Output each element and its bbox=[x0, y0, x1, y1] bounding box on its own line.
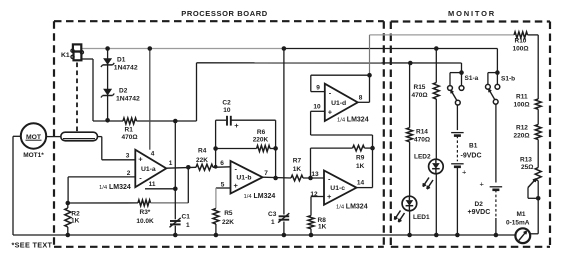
svg-text:10: 10 bbox=[223, 107, 231, 114]
svg-text:R2: R2 bbox=[71, 210, 80, 217]
svg-text:7: 7 bbox=[264, 170, 268, 177]
svg-text:U1-d: U1-d bbox=[331, 100, 346, 107]
svg-text:22K: 22K bbox=[222, 219, 234, 226]
svg-text:+: + bbox=[234, 121, 239, 130]
svg-text:10: 10 bbox=[313, 104, 321, 111]
svg-text:+: + bbox=[462, 168, 467, 177]
svg-text:1: 1 bbox=[169, 160, 173, 167]
svg-text:U1-c: U1-c bbox=[330, 185, 345, 192]
svg-text:2: 2 bbox=[127, 170, 131, 177]
svg-text:-9VDC: -9VDC bbox=[461, 153, 482, 160]
svg-text:1K: 1K bbox=[356, 163, 365, 170]
svg-text:470Ω: 470Ω bbox=[412, 92, 428, 99]
svg-text:R9: R9 bbox=[356, 155, 365, 162]
svg-text:R1: R1 bbox=[125, 127, 134, 134]
svg-text:1K: 1K bbox=[293, 166, 302, 173]
svg-text:220Ω: 220Ω bbox=[514, 133, 530, 140]
svg-text:LM324: LM324 bbox=[109, 184, 131, 191]
svg-text:0-15mA: 0-15mA bbox=[506, 220, 530, 227]
svg-text:MONITOR: MONITOR bbox=[448, 9, 496, 18]
svg-text:1N4742: 1N4742 bbox=[116, 96, 140, 103]
svg-text:LED2: LED2 bbox=[414, 154, 431, 161]
svg-text:+: + bbox=[328, 107, 333, 116]
svg-text:S1-b: S1-b bbox=[501, 76, 515, 83]
svg-text:+: + bbox=[327, 192, 332, 201]
svg-text:*SEE TEXT: *SEE TEXT bbox=[12, 241, 53, 250]
svg-text:PROCESSOR BOARD: PROCESSOR BOARD bbox=[181, 9, 268, 18]
svg-text:LM324: LM324 bbox=[346, 204, 368, 211]
svg-text:1N4742: 1N4742 bbox=[114, 64, 138, 71]
svg-text:R6: R6 bbox=[257, 129, 266, 136]
svg-text:1/4: 1/4 bbox=[99, 185, 108, 191]
svg-text:13: 13 bbox=[311, 171, 319, 178]
svg-text:+: + bbox=[480, 180, 485, 189]
svg-text:C3: C3 bbox=[268, 211, 277, 218]
svg-text:D1: D1 bbox=[117, 57, 126, 64]
svg-text:LED1: LED1 bbox=[413, 214, 430, 221]
svg-text:11: 11 bbox=[149, 181, 156, 188]
svg-text:1: 1 bbox=[271, 219, 275, 226]
svg-text:LM324: LM324 bbox=[347, 117, 369, 124]
svg-text:R4: R4 bbox=[198, 147, 207, 154]
svg-text:1/4: 1/4 bbox=[244, 194, 253, 200]
svg-text:4: 4 bbox=[151, 151, 155, 158]
svg-text:22K: 22K bbox=[196, 157, 208, 164]
svg-text:D2: D2 bbox=[119, 88, 128, 95]
svg-text:B1: B1 bbox=[469, 143, 478, 150]
svg-text:R14: R14 bbox=[416, 129, 428, 136]
svg-text:R11: R11 bbox=[516, 94, 528, 101]
svg-text:R7: R7 bbox=[293, 157, 302, 164]
svg-text:R5: R5 bbox=[224, 210, 233, 217]
svg-text:3: 3 bbox=[126, 153, 130, 160]
svg-text:U1-b: U1-b bbox=[236, 175, 251, 182]
svg-text:C2: C2 bbox=[222, 99, 231, 106]
svg-text:M1: M1 bbox=[517, 211, 526, 218]
svg-text:1/4: 1/4 bbox=[336, 205, 345, 211]
svg-text:1K: 1K bbox=[318, 224, 327, 231]
svg-text:R3*: R3* bbox=[140, 209, 151, 216]
svg-text:+: + bbox=[234, 181, 239, 190]
svg-text:S1-a: S1-a bbox=[465, 75, 479, 82]
svg-text:R10: R10 bbox=[515, 38, 527, 45]
svg-text:100Ω: 100Ω bbox=[514, 102, 530, 109]
svg-text:1: 1 bbox=[186, 222, 190, 229]
svg-text:220K: 220K bbox=[253, 136, 269, 143]
svg-text:1K: 1K bbox=[71, 217, 80, 224]
svg-text:470Ω: 470Ω bbox=[414, 137, 430, 144]
svg-text:+: + bbox=[138, 154, 143, 163]
svg-text:1/4: 1/4 bbox=[337, 118, 346, 124]
svg-text:8: 8 bbox=[359, 95, 363, 102]
svg-text:U1-a: U1-a bbox=[141, 166, 156, 173]
svg-text:MOT1*: MOT1* bbox=[23, 152, 44, 159]
svg-text:R12: R12 bbox=[516, 125, 528, 132]
svg-text:D2: D2 bbox=[475, 201, 484, 208]
svg-text:6: 6 bbox=[220, 160, 224, 167]
svg-text:9: 9 bbox=[316, 85, 320, 92]
svg-text:R15: R15 bbox=[414, 84, 426, 91]
svg-text:R13: R13 bbox=[520, 157, 532, 164]
svg-text:25Ω: 25Ω bbox=[521, 164, 533, 171]
svg-text:10.0K: 10.0K bbox=[136, 218, 154, 225]
svg-text:100Ω: 100Ω bbox=[513, 46, 529, 53]
svg-text:14: 14 bbox=[357, 180, 365, 187]
svg-text:K1: K1 bbox=[61, 52, 70, 59]
svg-text:LM324: LM324 bbox=[254, 193, 276, 200]
svg-text:+9VDC: +9VDC bbox=[468, 209, 491, 216]
svg-text:470Ω: 470Ω bbox=[122, 134, 138, 141]
svg-text:C1: C1 bbox=[182, 213, 191, 220]
